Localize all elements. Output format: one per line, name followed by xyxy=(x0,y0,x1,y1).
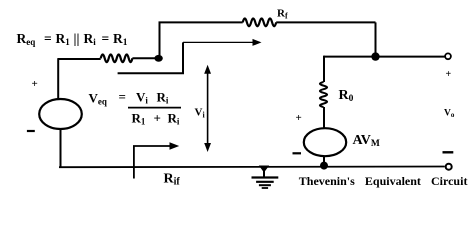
svg-text:Thevenin's: Thevenin's xyxy=(299,174,355,188)
svg-text:=: = xyxy=(44,31,52,46)
svg-text:=: = xyxy=(102,31,110,46)
wire top rail right of Rf xyxy=(276,21,375,23)
svg-text:+: + xyxy=(296,112,302,124)
arrow Rif xyxy=(134,142,179,178)
wire top rail left of Rf xyxy=(159,21,243,23)
label minus output xyxy=(443,151,454,153)
svg-text:R0: R0 xyxy=(339,88,354,104)
resistor Rf xyxy=(243,19,277,27)
wire AVM to bottom rail xyxy=(323,156,325,167)
junction node C xyxy=(320,162,328,170)
arrow Vi double-headed xyxy=(204,65,211,152)
svg-text:Vi: Vi xyxy=(136,90,148,106)
resistor Req xyxy=(101,55,133,63)
controlled source AVM xyxy=(304,128,346,156)
svg-text:Ri: Ri xyxy=(157,90,169,106)
svg-text:Vo: Vo xyxy=(444,109,455,120)
label Veq equation xyxy=(89,89,182,127)
wire output top rail xyxy=(324,56,445,58)
junction node A xyxy=(154,55,162,62)
wire left vertical top xyxy=(57,59,59,100)
wire left horizontal to resistor xyxy=(58,58,101,60)
caption Thevenin's Equivalent Circuit xyxy=(299,174,468,188)
ground xyxy=(252,166,279,189)
wire from output rail down to Ro xyxy=(323,56,325,82)
label minus Veq xyxy=(27,130,35,132)
svg-text:R1: R1 xyxy=(113,31,128,48)
wire resistor to junction xyxy=(132,57,158,59)
svg-text:Ri: Ri xyxy=(168,111,180,127)
svg-text:Rf: Rf xyxy=(277,8,288,21)
svg-text:Veq: Veq xyxy=(89,91,107,107)
svg-text:Rif: Rif xyxy=(164,172,181,188)
voltage source Veq xyxy=(39,99,82,129)
svg-text:Equivalent: Equivalent xyxy=(365,174,421,188)
feedback current arrow xyxy=(118,39,262,73)
wire bottom rail xyxy=(59,166,445,169)
output terminal minus circle xyxy=(446,164,452,170)
svg-text:R1: R1 xyxy=(56,31,71,47)
wire down from top rail to output rail xyxy=(375,22,377,56)
wire junction up to top rail xyxy=(159,22,161,58)
label minus AVM xyxy=(293,152,302,154)
svg-text:Circuit: Circuit xyxy=(431,174,467,188)
output terminal plus circle xyxy=(445,53,451,59)
svg-text:AVM: AVM xyxy=(353,133,380,149)
svg-text:Req: Req xyxy=(17,31,36,47)
svg-text:+: + xyxy=(446,69,452,80)
svg-text:Vi: Vi xyxy=(195,107,206,120)
svg-text:+: + xyxy=(32,78,38,90)
wire Ro to source AVM xyxy=(323,107,325,128)
wire source to bottom rail xyxy=(60,129,62,168)
svg-text:+: + xyxy=(154,111,161,126)
label Req equation xyxy=(17,31,128,48)
svg-text:||: || xyxy=(74,31,80,46)
svg-text:R1: R1 xyxy=(132,111,146,127)
junction node B xyxy=(371,52,379,60)
resistor Ro xyxy=(320,82,327,107)
svg-text:=: = xyxy=(119,89,126,104)
svg-text:Ri: Ri xyxy=(84,31,97,47)
